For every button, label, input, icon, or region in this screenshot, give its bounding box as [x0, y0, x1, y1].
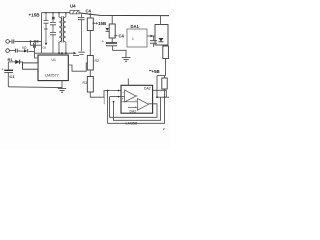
svg-text:C4: C4	[86, 9, 92, 14]
svg-text:+15B: +15B	[29, 12, 41, 17]
svg-text:U1: U1	[52, 58, 56, 62]
svg-text:LM358: LM358	[126, 122, 138, 126]
svg-text:C2: C2	[34, 39, 40, 44]
svg-text:−: −	[122, 91, 124, 95]
svg-text:C1: C1	[10, 74, 16, 79]
svg-text:U4: U4	[70, 4, 76, 9]
svg-text:+: +	[122, 97, 124, 101]
svg-text:+5B: +5B	[152, 69, 160, 74]
svg-text:R2: R2	[95, 59, 99, 63]
svg-text:+: +	[2, 68, 4, 72]
svg-text:DA2: DA2	[144, 86, 151, 90]
svg-text:R1: R1	[8, 57, 14, 62]
svg-text:C6: C6	[43, 46, 47, 50]
svg-text:C4: C4	[119, 33, 125, 38]
svg-text:LM2577: LM2577	[45, 74, 59, 78]
svg-text:C5: C5	[44, 27, 48, 31]
svg-text:R3: R3	[83, 81, 87, 85]
svg-text:1: 1	[132, 37, 134, 41]
svg-text:DA2: DA2	[130, 109, 137, 113]
svg-text:−: −	[135, 99, 137, 103]
svg-text:DA1: DA1	[131, 24, 140, 29]
svg-text:VD: VD	[22, 46, 27, 50]
svg-text:z: z	[163, 127, 165, 131]
svg-text:+15B: +15B	[96, 21, 107, 26]
